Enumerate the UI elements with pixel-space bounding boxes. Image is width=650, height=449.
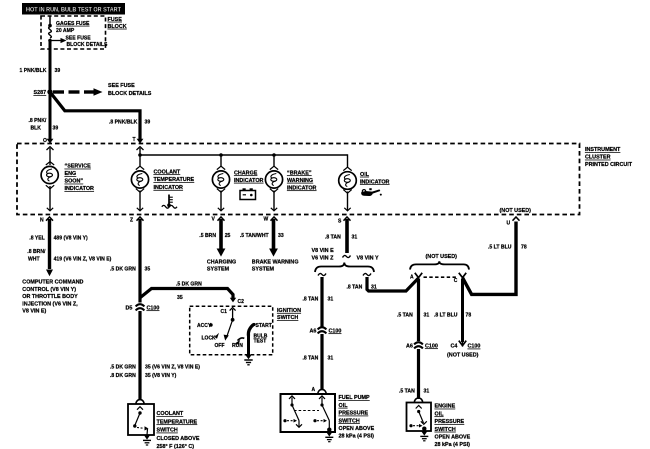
wire label .8 PNK/BLK 39 (left) — [29, 118, 59, 132]
coolant switch ground — [143, 435, 151, 445]
svg-text:.5 TAN: .5 TAN — [397, 312, 413, 318]
bus wire across cluster — [140, 154, 348, 156]
svg-text:BLOCK DETAILS: BLOCK DETAILS — [108, 91, 152, 97]
engine oil switch label — [435, 404, 471, 449]
svg-text:CLUSTER: CLUSTER — [585, 155, 611, 161]
ignition switch label — [277, 308, 301, 321]
svg-text:TEMPERATURE: TEMPERATURE — [154, 177, 195, 183]
bulb: coolant temperature indicator — [131, 171, 148, 188]
wire A6 to engine oil switch — [417, 349, 420, 399]
svg-text:D5: D5 — [126, 305, 133, 311]
wire fuse to S287 — [49, 41, 52, 93]
svg-text:31: 31 — [371, 285, 377, 291]
junction dot T bus — [138, 153, 142, 157]
oil can icon — [361, 188, 382, 196]
connector C100 pin A6 (fuel pump branch) — [310, 327, 342, 334]
wire label .5 LT BLU 78 — [488, 245, 527, 251]
bulb: oil indicator — [339, 172, 357, 190]
svg-text:“SERVICE: “SERVICE — [65, 164, 92, 170]
svg-text:U: U — [507, 221, 511, 227]
connector C100 pin D5 — [126, 304, 160, 311]
fuel pump switch ground — [325, 432, 333, 442]
pin N exit — [40, 217, 53, 276]
brake indicator label — [287, 170, 317, 191]
wire labels 35 V6/V8 — [110, 364, 200, 379]
svg-text:CHARGING: CHARGING — [207, 260, 236, 266]
pin A fuel pump switch — [312, 387, 327, 394]
junction dot — [48, 24, 52, 28]
svg-text:39: 39 — [53, 126, 59, 132]
wire pin O to service bulb — [46, 147, 54, 165]
svg-text:CONTROL (V8 VIN Y): CONTROL (V8 VIN Y) — [22, 287, 76, 293]
wire pin C to pin U — [463, 222, 516, 295]
svg-text:INDICATOR: INDICATOR — [287, 185, 317, 191]
engine oil switch ground — [420, 431, 428, 441]
svg-text:35: 35 — [177, 295, 183, 301]
instrument cluster label — [585, 147, 633, 168]
junction dot — [48, 39, 52, 43]
charge indicator label — [234, 170, 264, 184]
svg-text:COMPUTER COMMAND: COMPUTER COMMAND — [22, 280, 83, 286]
wire label 1 PNK/BLK 39 — [20, 68, 61, 74]
connector C100 pin A6 (engine oil branch) — [406, 342, 438, 349]
fuel pump switch label — [339, 395, 375, 440]
left pole — [289, 396, 295, 399]
svg-text:1 PNK/BLK: 1 PNK/BLK — [20, 68, 47, 74]
svg-text:T: T — [133, 137, 136, 143]
svg-text:START: START — [256, 323, 272, 329]
svg-text:INSTRUMENT: INSTRUMENT — [585, 147, 621, 153]
svg-text:C1: C1 — [221, 309, 228, 315]
pin V exit — [212, 217, 226, 257]
svg-text:.8 LT BLU: .8 LT BLU — [434, 312, 458, 318]
wire label .8 PNK/BLK 39 (right) — [109, 120, 150, 126]
ignition switch ground — [244, 355, 252, 365]
svg-text:SYSTEM: SYSTEM — [207, 266, 230, 272]
wire label .8 TAN 31 — [303, 296, 334, 302]
battery icon — [240, 188, 256, 199]
svg-text:.8 PNK/BLK: .8 PNK/BLK — [109, 120, 138, 126]
right pole — [319, 396, 325, 399]
wire pin C down to C4 C100 — [461, 279, 464, 343]
instrument cluster dashed box — [17, 144, 580, 215]
svg-text:78: 78 — [466, 312, 472, 318]
svg-text:COOLANT: COOLANT — [154, 169, 181, 175]
svg-text:HOT IN RUN, BULB TEST OR START: HOT IN RUN, BULB TEST OR START — [26, 7, 121, 13]
svg-text:V8 VIN E: V8 VIN E — [312, 248, 335, 254]
pin A (not used pair) — [410, 273, 422, 281]
svg-text:.8 TAN: .8 TAN — [303, 355, 319, 361]
svg-text:SWITCH: SWITCH — [435, 427, 456, 433]
svg-text:ENG: ENG — [65, 171, 77, 177]
svg-text:OIL: OIL — [435, 411, 445, 417]
wire labels .5 TAN 31 / .8 LT BLU 78 — [397, 312, 471, 318]
svg-text:C100: C100 — [147, 305, 160, 311]
pin O arrow into cluster — [47, 139, 54, 144]
wire label .5 DK GRN 35 (Z) — [110, 266, 150, 272]
coolant switch label — [157, 411, 200, 449]
svg-text:OR THROTTLE BODY: OR THROTTLE BODY — [22, 294, 78, 300]
wire bus to charge bulb — [217, 155, 225, 170]
svg-text:.5 BRN: .5 BRN — [199, 233, 216, 239]
wire bus corner to oil bulb — [343, 154, 351, 170]
svg-text:FUSE: FUSE — [108, 17, 123, 23]
svg-text:(NOT USED): (NOT USED) — [447, 352, 479, 358]
engine oil pressure switch box — [407, 398, 432, 431]
svg-text:.8 TAN: .8 TAN — [347, 285, 363, 291]
pin W exit — [264, 217, 278, 257]
oil indicator label — [360, 172, 390, 186]
wire bus to coolant bulb — [136, 166, 144, 169]
svg-text:C100: C100 — [468, 344, 481, 350]
svg-text:.5 DK GRN: .5 DK GRN — [176, 281, 202, 287]
svg-text:BLOCK DETAILS: BLOCK DETAILS — [67, 42, 109, 48]
brake warning system label — [252, 260, 299, 273]
wire label .8 TAN 31 (right branch) — [347, 285, 377, 291]
svg-text:28 kPa (4 PSI): 28 kPa (4 PSI) — [339, 434, 375, 440]
ignition switch C2 connector — [230, 298, 244, 305]
svg-text:258° F (126° C): 258° F (126° C) — [157, 444, 195, 449]
dashed link A to C — [424, 276, 458, 278]
svg-text:31: 31 — [328, 296, 334, 302]
svg-text:V8 VIN E): V8 VIN E) — [22, 309, 46, 315]
junction dot charge — [219, 153, 223, 157]
wire break right branch — [363, 273, 371, 275]
gages fuse labels — [56, 21, 108, 48]
svg-text:IGNITION: IGNITION — [277, 308, 301, 314]
svg-text:C2: C2 — [238, 299, 245, 305]
svg-text:INDICATOR: INDICATOR — [360, 179, 390, 185]
pin U exit — [507, 217, 520, 227]
svg-text:GAGES FUSE: GAGES FUSE — [56, 21, 90, 27]
svg-text:PRINTED CIRCUIT: PRINTED CIRCUIT — [585, 162, 633, 168]
wire label .5 TAN 31 — [399, 388, 429, 394]
svg-text:Z: Z — [130, 218, 133, 224]
svg-text:V6 VIN Z: V6 VIN Z — [312, 256, 335, 262]
svg-text:489 (V8 VIN Y): 489 (V8 VIN Y) — [54, 235, 88, 241]
svg-text:.5 TAN/WHT: .5 TAN/WHT — [240, 233, 270, 239]
svg-text:ENGINE: ENGINE — [435, 404, 456, 410]
wire charge bulb to pin V — [217, 189, 225, 211]
svg-text:.8 TAN: .8 TAN — [303, 296, 319, 302]
ignition switch internals — [197, 308, 272, 356]
pin C (not used pair) — [454, 273, 466, 284]
wire to ground — [247, 335, 250, 356]
svg-text:OPEN ABOVE: OPEN ABOVE — [435, 435, 471, 441]
svg-text:S287: S287 — [34, 90, 47, 96]
svg-text:C: C — [454, 278, 458, 284]
wire labels .8 YEL 489 — [27, 235, 111, 262]
wire D5 to coolant switch — [138, 311, 141, 400]
wiper arm — [227, 320, 233, 336]
bulb: service engine soon indicator — [41, 166, 58, 183]
svg-text:33: 33 — [278, 233, 284, 239]
pin Z exit — [130, 217, 144, 303]
svg-text:TEMPERATURE: TEMPERATURE — [157, 419, 198, 425]
svg-text:.5 DK GRN: .5 DK GRN — [110, 266, 136, 272]
wire A6 to fuel pump switch — [320, 334, 323, 390]
svg-text:.5 DK GRN: .5 DK GRN — [110, 364, 136, 370]
banner HOT IN RUN, BULB TEST OR START — [22, 3, 125, 15]
svg-text:A: A — [410, 275, 414, 281]
svg-text:39: 39 — [145, 120, 151, 126]
wire pin T to bus — [137, 147, 144, 166]
branch wire Z to ignition switch C2 — [140, 281, 233, 301]
wire S287 down to cluster pin O — [49, 92, 52, 140]
svg-text:.8 PNK/: .8 PNK/ — [29, 118, 47, 124]
computer command control label — [22, 280, 83, 315]
svg-text:SEE FUSE: SEE FUSE — [108, 83, 135, 89]
wire break at split — [343, 255, 351, 257]
svg-text:.8 YEL: .8 YEL — [29, 235, 44, 241]
svg-text:419 (V6 VIN Z, V8 VIN E): 419 (V6 VIN Z, V8 VIN E) — [54, 257, 112, 263]
wire break left branch — [318, 273, 326, 275]
svg-text:(NOT USED): (NOT USED) — [500, 208, 532, 214]
svg-text:.8 BRN/: .8 BRN/ — [27, 249, 46, 255]
svg-text:BLOCK: BLOCK — [108, 24, 127, 30]
junction dot brake — [272, 153, 276, 157]
service indicator label — [65, 164, 95, 193]
svg-text:C4: C4 — [451, 344, 458, 350]
svg-text:.5 TAN: .5 TAN — [399, 388, 415, 394]
svg-text:INJECTION (V6 VIN Z,: INJECTION (V6 VIN Z, — [22, 301, 78, 307]
svg-text:INDICATOR: INDICATOR — [65, 186, 95, 192]
svg-text:.8 DK GRN: .8 DK GRN — [110, 373, 136, 379]
svg-text:A6: A6 — [406, 343, 413, 349]
split VIN labels — [312, 248, 379, 262]
svg-text:35 (V8 VIN Y): 35 (V8 VIN Y) — [145, 373, 177, 379]
svg-text:TEST: TEST — [254, 339, 267, 345]
wire brake bulb to pin W — [270, 189, 278, 211]
svg-text:V8 VIN Y: V8 VIN Y — [357, 256, 379, 262]
wire pin A down to A6 C100 — [417, 279, 420, 342]
svg-text:COOLANT: COOLANT — [157, 411, 184, 417]
ignition switch dashed box — [190, 306, 273, 355]
wire label .5 BRN 25 — [199, 233, 230, 239]
svg-text:OIL: OIL — [360, 172, 370, 178]
svg-text:PRESSURE: PRESSURE — [339, 411, 369, 417]
pin T arrow into cluster — [137, 139, 144, 144]
svg-text:LOCK: LOCK — [202, 336, 217, 342]
svg-text:31: 31 — [424, 312, 430, 318]
svg-text:INDICATOR: INDICATOR — [154, 185, 184, 191]
svg-text:CLOSED ABOVE: CLOSED ABOVE — [157, 436, 200, 442]
fuse block dashed box — [41, 16, 106, 49]
svg-text:35: 35 — [145, 266, 151, 272]
see fuse block details arrow — [50, 38, 67, 43]
svg-text:C100: C100 — [329, 328, 342, 334]
svg-text:W: W — [264, 217, 269, 223]
svg-text:SOON”: SOON” — [65, 179, 84, 185]
svg-text:28 kPa (4 PSI): 28 kPa (4 PSI) — [435, 442, 471, 448]
svg-text:PRESSURE: PRESSURE — [435, 419, 465, 425]
svg-text:SYSTEM: SYSTEM — [252, 266, 275, 272]
svg-text:25: 25 — [225, 233, 231, 239]
svg-text:35 (V6 VIN Z, V8 VIN E): 35 (V6 VIN Z, V8 VIN E) — [145, 364, 200, 370]
start contact arc — [248, 325, 253, 337]
svg-text:INDICATOR: INDICATOR — [234, 178, 264, 184]
svg-text:A6: A6 — [310, 328, 317, 334]
svg-text:31: 31 — [328, 355, 334, 361]
svg-text:OIL: OIL — [339, 403, 349, 409]
svg-text:.5 LT BLU: .5 LT BLU — [488, 245, 512, 251]
svg-text:N: N — [40, 218, 44, 224]
svg-text:SWITCH: SWITCH — [339, 418, 360, 424]
split brace — [315, 263, 374, 273]
bulb: charge indicator — [212, 171, 229, 188]
coolant temperature icon — [162, 195, 177, 209]
fuel pump oil pressure switch box — [281, 394, 336, 432]
pin S exit — [338, 217, 351, 253]
wire label .8 TAN 31 (S) — [325, 234, 357, 240]
dashed arrow SEE FUSE BLOCK DETAILS — [53, 83, 152, 97]
coolant indicator label — [154, 169, 195, 191]
svg-text:WHT: WHT — [28, 257, 40, 263]
right branch wire to pin A — [367, 277, 418, 291]
wire service bulb to pin N — [46, 185, 54, 211]
pole link dashed — [294, 410, 319, 412]
wire coolant bulb to pin Z — [136, 189, 144, 211]
splice node S287 — [34, 89, 53, 96]
wire oil bulb to pin S — [343, 190, 351, 211]
svg-text:OPEN ABOVE: OPEN ABOVE — [339, 426, 375, 432]
svg-text:31: 31 — [424, 388, 430, 394]
wire bus to brake bulb — [270, 155, 278, 170]
(NOT USED) bracket A-C — [410, 254, 469, 269]
wire label .5 TAN/WHT 33 — [240, 233, 284, 239]
fuse F (squiggle) — [49, 27, 52, 38]
svg-text:OFF: OFF — [215, 343, 225, 349]
charging system label — [207, 260, 236, 273]
left branch wire to A6 C100 — [320, 277, 323, 327]
bulb: brake warning indicator — [265, 171, 282, 188]
fuse block label — [108, 17, 127, 30]
svg-text:CHARGE: CHARGE — [234, 170, 258, 176]
coolant temperature switch box — [128, 400, 154, 435]
svg-text:20 AMP: 20 AMP — [56, 28, 75, 34]
pin C1 — [230, 308, 236, 311]
svg-text:FUEL PUMP: FUEL PUMP — [339, 395, 370, 401]
wire label .8 TAN 31 — [303, 355, 334, 361]
wire from box top to fuse — [49, 16, 51, 26]
svg-text:BLK: BLK — [31, 126, 42, 132]
svg-text:39: 39 — [55, 68, 61, 74]
svg-text:31: 31 — [352, 234, 358, 240]
svg-text:SWITCH: SWITCH — [157, 428, 178, 434]
connector C100 pin C4 (not used) — [447, 341, 480, 359]
wire S287 branch to pin T — [50, 92, 140, 140]
svg-text:A: A — [312, 387, 316, 393]
svg-text:“BRAKE”: “BRAKE” — [287, 170, 312, 176]
svg-text:.8 TAN: .8 TAN — [325, 234, 341, 240]
svg-text:SEE FUSE: SEE FUSE — [66, 35, 92, 41]
svg-text:(NOT USED): (NOT USED) — [426, 254, 458, 260]
svg-text:BRAKE WARNING: BRAKE WARNING — [252, 260, 299, 266]
svg-text:SWITCH: SWITCH — [277, 315, 298, 321]
svg-text:C100: C100 — [425, 343, 438, 349]
svg-text:WARNING: WARNING — [287, 178, 313, 184]
svg-text:78: 78 — [521, 245, 527, 251]
